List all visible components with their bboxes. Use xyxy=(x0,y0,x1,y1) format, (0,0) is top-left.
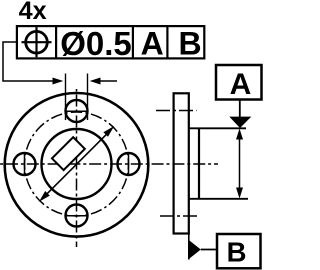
wire right dimension line xyxy=(93,80,118,82)
wire extension line right of top hole xyxy=(87,74,89,121)
wire top hole centerline side view xyxy=(156,110,197,112)
node hole right xyxy=(118,153,140,175)
node slot rectangle in bore xyxy=(52,137,85,170)
wire vertical dimension line hub xyxy=(239,131,241,196)
node left dimension arrow xyxy=(53,78,64,85)
wire extension line left of top hole xyxy=(65,74,67,121)
wire horizontal centerline front+side view xyxy=(0,163,218,165)
svg-text:A: A xyxy=(141,25,164,61)
node dimension arrow down xyxy=(236,188,243,199)
node hole top xyxy=(66,100,88,122)
wire bottom hole centerline side view xyxy=(160,215,200,217)
wire diagonal bolt-circle diameter dimension xyxy=(39,126,114,202)
wire tick through top hole xyxy=(65,110,89,112)
wire tick through left hole xyxy=(24,152,26,176)
node position symbol xyxy=(22,27,52,57)
node hole left xyxy=(14,153,36,175)
svg-text:4x: 4x xyxy=(19,0,47,25)
wire leader from feature control frame xyxy=(3,42,60,81)
node bolt circle (dash-dot) xyxy=(25,112,129,216)
wire datum B leader xyxy=(201,249,217,251)
wire hub bottom edge + extension xyxy=(189,198,248,200)
wire flange right face extension line xyxy=(188,234,190,260)
node dimension arrow up xyxy=(236,129,243,140)
wire tick through right hole xyxy=(128,152,130,176)
node hub right edge xyxy=(198,128,200,199)
wire datum A stem xyxy=(239,100,241,118)
node outer flange circle xyxy=(5,93,149,237)
node datum A triangle xyxy=(229,117,251,128)
node feature control frame xyxy=(17,26,204,58)
node datum B triangle xyxy=(189,240,201,259)
svg-text:B: B xyxy=(227,236,247,267)
node datum B box xyxy=(217,234,261,268)
node hole bottom xyxy=(66,205,88,227)
svg-text:Ø0.5: Ø0.5 xyxy=(60,25,132,62)
wire tick through bottom hole xyxy=(65,215,89,217)
svg-text:B: B xyxy=(178,25,201,61)
wire hub top edge + extension xyxy=(189,127,246,129)
node center bore circle xyxy=(42,129,112,199)
svg-text:A: A xyxy=(230,68,252,101)
node right dimension arrow xyxy=(90,78,101,85)
node datum A box xyxy=(216,65,262,100)
node side view flange rectangle xyxy=(174,93,189,233)
wire vertical centerline front view xyxy=(76,89,78,247)
